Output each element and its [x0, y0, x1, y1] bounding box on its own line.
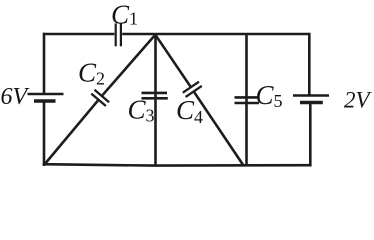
wire C5 vertical [245, 35, 248, 166]
wire C3 vertical [154, 35, 157, 166]
svg-text:C1: C1 [111, 0, 138, 30]
svg-text:6V: 6V [1, 84, 30, 110]
svg-text:C5: C5 [256, 80, 283, 111]
battery 2V [293, 96, 329, 103]
capacitor C2 [91, 90, 109, 106]
capacitor C4 [183, 82, 202, 97]
svg-text:2V: 2V [344, 88, 373, 113]
wire bottom [43, 164, 312, 165]
capacitor C3 [142, 93, 168, 98]
wire top left segment [43, 33, 114, 36]
battery 6V [28, 94, 64, 101]
svg-text:C2: C2 [78, 58, 105, 89]
wire C2 diagonal upper [103, 35, 156, 95]
capacitor C5 [235, 97, 260, 103]
capacitor C1 [116, 23, 121, 46]
wire left edge lower [43, 102, 46, 167]
wire C2 diagonal lower [44, 101, 98, 165]
wire left edge upper [43, 33, 46, 93]
wire C4 diagonal lower [194, 92, 243, 165]
wire C4 diagonal upper [155, 35, 190, 87]
wire right edge lower [309, 103, 312, 165]
wire top right segment [122, 33, 308, 36]
wire right edge upper [308, 33, 311, 96]
